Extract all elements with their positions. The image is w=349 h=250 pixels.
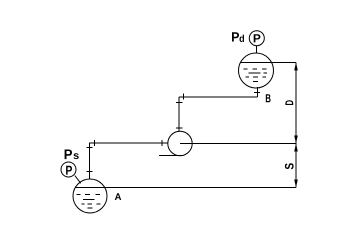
tank A liquid dashes row 3 <box>81 203 100 205</box>
label A <box>115 193 121 200</box>
gauge Pd circle <box>249 31 264 46</box>
flange tick on suction pipe left <box>94 140 96 146</box>
label P inside gauge Pd <box>254 34 261 42</box>
discharge horizontal pipe <box>179 96 257 98</box>
pump base tangent line <box>159 155 183 157</box>
label Ps text subscript s <box>74 153 79 159</box>
tank A liquid dashes row 2 <box>83 199 95 201</box>
suction riser pipe from tank A <box>90 143 168 179</box>
pump centerline extension to dimension line <box>180 143 296 145</box>
label P inside gauge Ps <box>66 166 72 175</box>
extension line tank B level <box>272 61 297 63</box>
tank A liquid level line <box>75 187 104 189</box>
pump circle <box>168 131 192 155</box>
label Pd text subscript d <box>240 35 245 42</box>
dimension D arrow top <box>294 62 298 70</box>
flange tick below tank B <box>254 91 260 93</box>
dimension D arrow bottom <box>294 136 298 144</box>
tank A <box>73 179 107 213</box>
dimension S arrow top <box>294 144 298 152</box>
gauge Pd stem <box>256 46 258 54</box>
flange tick on discharge riser upper <box>176 102 183 104</box>
flange tick on discharge pipe <box>183 94 185 100</box>
flange tick on riser lower <box>87 171 93 173</box>
dimension S arrow bottom <box>294 180 298 188</box>
flange tick on discharge riser lower <box>176 127 183 129</box>
label Pd text P <box>232 32 239 41</box>
label D rotated <box>285 100 293 105</box>
gauge Ps connector line <box>75 176 81 184</box>
label S rotated <box>285 163 294 169</box>
label B <box>266 94 271 102</box>
dimension line vertical <box>295 62 297 187</box>
tank A liquid dashes row 1 <box>77 194 101 196</box>
tank B liquid dashes row 4 <box>253 81 258 83</box>
tank B liquid dashes row 1 <box>244 68 267 70</box>
flange tick on suction pipe right <box>161 140 163 146</box>
tank B liquid level line <box>241 61 272 63</box>
tank A liquid dashes row 4 <box>88 207 93 209</box>
riser pipe into tank B <box>256 87 258 97</box>
extension line tank A level <box>105 187 296 189</box>
discharge riser pipe from pump top <box>178 97 180 131</box>
tank B liquid dashes row 3 <box>246 76 267 78</box>
label Ps text P <box>65 150 72 160</box>
gauge Ps circle <box>61 162 76 177</box>
flange tick on riser upper <box>87 147 93 149</box>
tank B liquid dashes row 2 <box>249 72 268 74</box>
tank B <box>239 53 274 88</box>
